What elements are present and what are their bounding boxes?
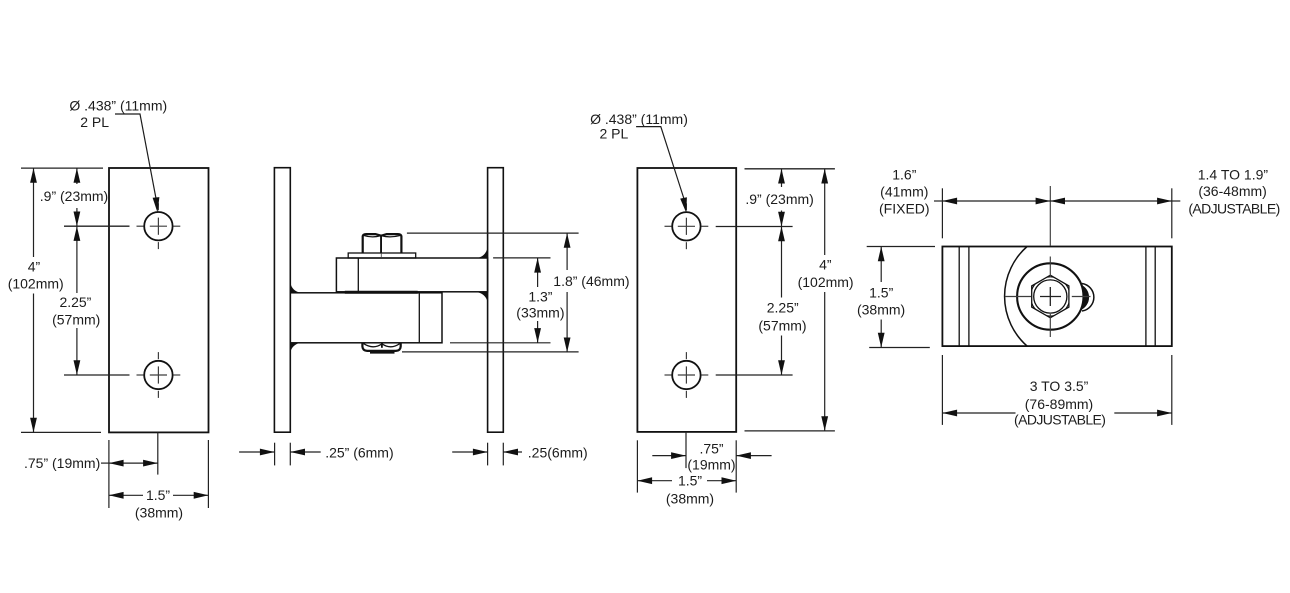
svg-text:(38mm): (38mm)	[857, 301, 905, 317]
plate (view 1)	[109, 168, 209, 432]
svg-text:2.25”: 2.25”	[59, 294, 91, 310]
upper arm (view 2)	[336, 258, 487, 292]
nut chamfer arcs (view 4)	[1031, 277, 1070, 316]
svg-text:(33mm): (33mm)	[516, 304, 564, 320]
extension line bottom-left (view 3)	[636, 440, 638, 492]
lower arm (view 2)	[290, 293, 442, 343]
center mark H1 (view 3)	[665, 203, 709, 249]
svg-text:1.4 TO 1.9”: 1.4 TO 1.9”	[1198, 166, 1269, 182]
fillet T2 right plate below upper arm (view 2)	[477, 292, 487, 302]
dim line stub left (view 4)	[934, 200, 942, 202]
svg-text:.25(6mm): .25(6mm)	[528, 445, 588, 461]
inner line left B (view 4)	[968, 247, 970, 347]
bolt circle (view 4)	[1034, 280, 1067, 313]
center cross (view 4)	[1040, 296, 1061, 298]
inner line left A (view 4)	[958, 247, 960, 347]
svg-text:1.6”: 1.6”	[892, 167, 916, 183]
svg-text:(19mm): (19mm)	[687, 456, 735, 472]
svg-text:(38mm): (38mm)	[666, 491, 714, 507]
clamp body (view 4)	[942, 247, 1171, 347]
extension line nut top (view 2)	[407, 232, 579, 234]
hole H1 (view 1)	[144, 212, 172, 240]
boss circle (view 4)	[1017, 263, 1083, 329]
dim 3 to 3.5 adjustable (view 4)	[942, 412, 1015, 414]
svg-text:(38mm): (38mm)	[135, 505, 183, 521]
extension line bottom (view 3)	[745, 430, 835, 432]
svg-text:1.5”: 1.5”	[678, 472, 702, 488]
svg-text:(FIXED): (FIXED)	[879, 201, 930, 217]
dim 4" (view 3)	[824, 169, 826, 255]
arm end arc (view 4)	[1005, 247, 1028, 347]
hole H2 (view 3)	[672, 361, 700, 389]
fillet T3 left plate above lower arm (view 2)	[290, 283, 300, 293]
washer (view 2)	[348, 253, 416, 258]
left plate edge (view 2)	[274, 168, 290, 433]
svg-text:(41mm): (41mm)	[880, 184, 928, 200]
svg-text:Ø .438” (11mm): Ø .438” (11mm)	[590, 111, 688, 127]
dim .25 right (view 2)	[452, 451, 487, 453]
center mark H1 (view 1)	[137, 203, 181, 249]
extension lines below left plate (view 2)	[274, 443, 276, 466]
inner line right B (view 4)	[1154, 247, 1156, 347]
nut facet line (view 2)	[380, 236, 382, 253]
right plate edge (view 2)	[488, 168, 504, 433]
dim 1.8" (view 2)	[566, 233, 568, 270]
inner line right A (view 4)	[1145, 247, 1147, 347]
svg-text:(76-89mm): (76-89mm)	[1025, 396, 1093, 412]
extension line top (view 3)	[745, 168, 835, 170]
svg-text:(ADJUSTABLE): (ADJUSTABLE)	[1188, 200, 1279, 216]
svg-text:3 TO 3.5”: 3 TO 3.5”	[1030, 378, 1089, 394]
svg-text:.9” (23mm): .9” (23mm)	[40, 188, 108, 204]
svg-text:.75”: .75”	[699, 440, 723, 456]
svg-text:2 PL: 2 PL	[600, 126, 629, 142]
nut facet arcs (view 2)	[364, 235, 401, 237]
svg-text:(57mm): (57mm)	[758, 318, 806, 334]
bottom bolt head facet arcs (view 2)	[364, 344, 400, 347]
dim 1.5" (view 3)	[637, 480, 672, 482]
dim .9" (view 1) line	[76, 168, 78, 184]
svg-text:1.5”: 1.5”	[869, 285, 893, 301]
horizontal centerline (view 4)	[1005, 296, 1091, 298]
bottom dim extension right (view 4)	[1171, 355, 1173, 425]
extension line washer top (view 2)	[493, 257, 550, 259]
extension lines below right plate (view 2)	[487, 443, 489, 466]
svg-text:(ADJUSTABLE): (ADJUSTABLE)	[1014, 412, 1105, 428]
svg-text:(57mm): (57mm)	[52, 311, 100, 327]
center mark H2 (view 3)	[665, 352, 709, 398]
svg-text:1.8” (46mm): 1.8” (46mm)	[553, 273, 629, 289]
fillet T4 left plate below lower arm (view 2)	[290, 343, 300, 353]
top dim extension right (view 4)	[1171, 188, 1173, 238]
bottom bolt head facet line (view 2)	[381, 343, 383, 348]
bottom dim extension left (view 4)	[941, 355, 943, 425]
bolt end protrusion outer arc (view 4)	[1082, 284, 1094, 312]
hole callout leader (view 3)	[636, 127, 684, 200]
svg-text:.9” (23mm): .9” (23mm)	[745, 191, 813, 207]
dim 1.6" fixed (view 4)	[942, 200, 1050, 202]
center mark H2 (view 1)	[137, 352, 181, 398]
left dim extension top (view 4)	[867, 246, 935, 248]
hex nut (view 4)	[1032, 275, 1069, 318]
extension line hole1 level (view 3)	[716, 226, 793, 228]
svg-text:1.3”: 1.3”	[528, 289, 552, 305]
dim .9" (view 3)	[781, 169, 783, 187]
dim 1.5" (view 1)	[109, 494, 143, 496]
hole H2 (view 1)	[144, 361, 172, 389]
bottom bolt head flat (view 2)	[370, 351, 395, 353]
vertical centerline (view 4)	[1049, 186, 1051, 337]
svg-text:(102mm): (102mm)	[8, 275, 64, 291]
dim 4" (view 1) line	[33, 168, 35, 257]
washer center line (view 2)	[380, 253, 382, 257]
svg-text:2 PL: 2 PL	[80, 114, 109, 130]
hole centerline below plate (view 1)	[157, 432, 159, 474]
extension line hole2 level (view 1)	[64, 374, 130, 376]
dim 2.25" (view 1) line	[76, 226, 78, 293]
lower arm inner line (view 2)	[418, 293, 420, 343]
svg-text:.25” (6mm): .25” (6mm)	[325, 445, 393, 461]
dim 2.25" (view 3)	[781, 227, 783, 298]
svg-text:2.25”: 2.25”	[767, 299, 799, 315]
dim 1.3" (view 2)	[537, 258, 539, 287]
extension line bottom (view 1)	[21, 431, 101, 433]
hole centerline below plate (view 3)	[685, 432, 687, 468]
bolt end protrusion crescent (view 4)	[1081, 284, 1090, 310]
dim .25" left (view 2)	[239, 451, 275, 453]
nut (view 2)	[363, 234, 402, 253]
fillet T1 right plate above upper arm (view 2)	[477, 247, 487, 258]
dim 1.4 to 1.9 adjustable (view 4)	[1050, 200, 1172, 202]
plate (view 3)	[637, 168, 736, 432]
extension line hole1 level (view 1)	[64, 225, 130, 227]
dim 1.5" (view 4)	[880, 247, 882, 283]
hole H1 (view 3)	[672, 212, 700, 240]
dim .75" (view 3)	[652, 455, 686, 457]
svg-text:(36-48mm): (36-48mm)	[1198, 183, 1266, 199]
extension line bottom-right (view 3)	[735, 440, 737, 492]
extension line hole2 level (view 3)	[716, 374, 793, 376]
svg-text:Ø .438” (11mm): Ø .438” (11mm)	[69, 98, 167, 114]
svg-text:4”: 4”	[819, 257, 832, 273]
left dim extension bottom (view 4)	[869, 347, 930, 349]
upper arm inner line (view 2)	[357, 258, 359, 292]
extension line arm bottom (view 2)	[450, 342, 551, 344]
dim line stub right (view 4)	[1172, 200, 1181, 202]
svg-text:4”: 4”	[28, 259, 41, 275]
svg-text:(102mm): (102mm)	[798, 274, 854, 290]
svg-text:1.5”: 1.5”	[146, 487, 170, 503]
extension line bottom nut (view 2)	[402, 351, 579, 353]
bottom bolt head (view 2)	[362, 343, 400, 351]
contact line (view 2)	[345, 291, 418, 294]
svg-text:.75” (19mm): .75” (19mm)	[24, 455, 100, 471]
hole callout leader (view 1)	[115, 114, 156, 200]
top dim extension left (view 4)	[941, 188, 943, 238]
extension line bottom-right (view 1)	[207, 440, 209, 508]
extension line top (view 1)	[21, 167, 103, 169]
extension line bottom-left (view 1)	[108, 440, 110, 508]
